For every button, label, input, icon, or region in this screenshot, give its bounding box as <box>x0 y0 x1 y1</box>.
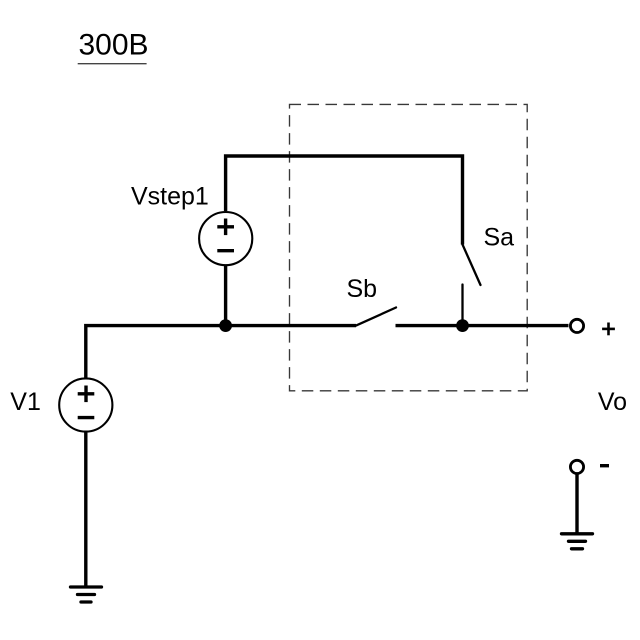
svg-text:Sa: Sa <box>484 223 515 251</box>
svg-text:Sb: Sb <box>347 275 378 303</box>
svg-text:Vo: Vo <box>598 388 627 416</box>
svg-text:V1: V1 <box>10 388 41 416</box>
svg-text:Vstep1: Vstep1 <box>131 182 209 210</box>
svg-text:300B: 300B <box>79 28 149 61</box>
